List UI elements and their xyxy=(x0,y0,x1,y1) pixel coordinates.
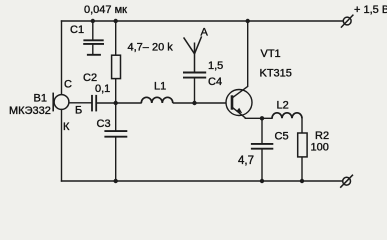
capacitor C3 xyxy=(104,131,127,137)
wire: collector vertical to top rail xyxy=(247,21,249,86)
wire: microphone bottom lead to bottom rail xyxy=(61,109,63,181)
capacitor C5 4,7 xyxy=(251,144,273,149)
svg-text:0,047 мк: 0,047 мк xyxy=(84,4,127,16)
junction node: top rail / R1 xyxy=(114,19,118,23)
svg-text:L1: L1 xyxy=(154,81,166,93)
wire: C5 top lead xyxy=(261,118,263,143)
resistor R1 4,7-20k xyxy=(112,55,121,78)
wire: L2 right end down to R2 xyxy=(301,118,303,133)
junction node: bottom rail / C5 xyxy=(260,179,264,183)
wire: top supply rail xyxy=(62,20,344,22)
svg-text:Б: Б xyxy=(75,105,82,117)
svg-text:L2: L2 xyxy=(277,100,289,112)
wire: C3 bottom lead xyxy=(115,138,117,182)
junction node: emitter line / C5 xyxy=(260,116,264,120)
svg-text:VT1: VT1 xyxy=(261,48,281,60)
svg-text:4,7: 4,7 xyxy=(238,155,254,167)
junction node: bottom rail / R2 xyxy=(300,179,304,183)
svg-text:KT315: KT315 xyxy=(260,68,292,80)
svg-text:A: A xyxy=(201,27,209,39)
microphone B1 МКЭ332 xyxy=(53,93,69,112)
wire: C2 to L1 xyxy=(97,102,141,104)
junction node: base line / C4 xyxy=(192,101,196,105)
wire: L1 to transistor base xyxy=(173,102,232,104)
capacitor C2 0,1 xyxy=(92,95,96,112)
svg-text:C3: C3 xyxy=(97,118,111,130)
svg-text:МКЭ332: МКЭ332 xyxy=(9,105,51,117)
junction node: top rail / C1 xyxy=(91,19,95,23)
wire: C4 to node on base line xyxy=(194,79,196,104)
junction node: bottom rail / C3 xyxy=(114,179,118,183)
svg-text:К: К xyxy=(63,121,70,133)
antenna A xyxy=(184,36,202,71)
resistor R2 100 xyxy=(298,133,307,157)
wire: R1 top lead xyxy=(115,21,117,55)
inductor L1 xyxy=(141,97,173,103)
svg-text:4,7– 20 k: 4,7– 20 k xyxy=(128,42,174,54)
svg-text:C4: C4 xyxy=(208,76,222,88)
terminal common (bottom) xyxy=(340,175,353,188)
svg-text:С: С xyxy=(64,79,72,91)
wire: C1 top lead xyxy=(92,21,94,39)
wire: C3 top lead xyxy=(115,103,117,130)
wire: R2 bottom lead xyxy=(301,157,303,181)
svg-text:C1: C1 xyxy=(70,24,84,36)
wire: C1 bottom lead xyxy=(92,45,94,54)
inductor L2 xyxy=(272,113,302,118)
capacitor C1 0,047 мк xyxy=(83,40,104,55)
svg-text:B1: B1 xyxy=(34,93,47,105)
wire: C5 bottom lead xyxy=(261,150,263,181)
wire: R1 bottom lead xyxy=(115,79,117,103)
svg-text:1,5: 1,5 xyxy=(208,60,223,72)
transistor VT1 KT315 xyxy=(226,86,252,118)
wire: left vertical from top rail to microphone xyxy=(61,21,63,95)
junction node: base line / R1-C3 xyxy=(114,101,118,105)
capacitor C4 1,5 xyxy=(183,73,206,78)
wire: emitter horizontal to L2 xyxy=(245,117,272,119)
junction node: top rail / collector xyxy=(246,19,250,23)
svg-text:R2: R2 xyxy=(315,130,329,142)
wire: microphone output to C2 xyxy=(69,102,91,104)
svg-text:C5: C5 xyxy=(275,131,289,143)
svg-text:+ 1,5 B: + 1,5 B xyxy=(354,4,387,16)
terminal +1,5 B (top) xyxy=(341,15,354,28)
svg-text:0,1: 0,1 xyxy=(95,83,110,95)
svg-text:100: 100 xyxy=(311,142,329,154)
wire: bottom common rail xyxy=(62,180,343,182)
